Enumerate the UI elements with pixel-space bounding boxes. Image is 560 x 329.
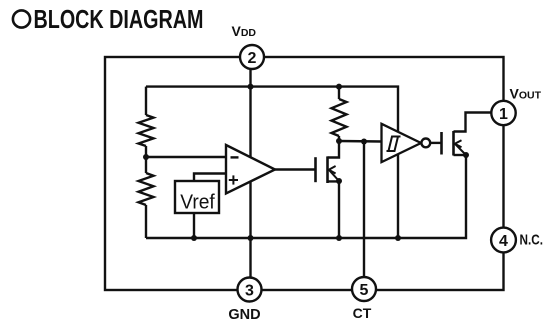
resistor R1 (divider top): [139, 115, 154, 146]
resistor R3 (timing): [332, 99, 347, 136]
pin 3 (GND): [238, 278, 262, 302]
wire: left divider upper lead: [145, 87, 147, 115]
wire: Vref output to comparator non-inverting input: [194, 174, 226, 182]
wire: internal bottom rail: [146, 155, 466, 238]
pin 5 (CT): [352, 277, 376, 301]
wire: R2 to bottom rail: [145, 205, 147, 238]
wire: R3 upper lead from top rail: [338, 87, 340, 99]
comparator U1: [226, 145, 275, 193]
wire: schmitt output to Q2 gate: [430, 142, 441, 144]
wire: divider tap to comparator inverting input: [146, 156, 226, 158]
wire: comparator output to Q1 gate: [275, 168, 316, 170]
wire: CT node to schmitt input: [339, 140, 382, 143]
IC outer boundary box: [105, 57, 504, 290]
minus input symbol: [231, 156, 239, 158]
svg-text:CT: CT: [353, 305, 372, 321]
junction: divider tap: [143, 154, 149, 160]
pin 2 (VDD): [240, 45, 264, 69]
wire: Vref ground lead: [193, 213, 195, 238]
svg-text:4: 4: [499, 233, 508, 250]
pin 1 (VOUT): [491, 101, 515, 125]
resistor R2 (divider bottom): [139, 173, 154, 205]
wire: Q1 drain to CT node: [328, 141, 340, 158]
wire: divider midpoint: [145, 146, 147, 173]
inverter bubble: [421, 139, 430, 148]
svg-text:GND: GND: [228, 307, 260, 323]
svg-text:5: 5: [360, 282, 369, 299]
wire: R3 lower lead to CT node: [338, 136, 340, 141]
junction: Q1 source node: [336, 178, 342, 184]
junction: CT node / R3: [336, 138, 342, 144]
transistor Q1 (discharge MOSFET): [316, 156, 340, 183]
junction: bottom rail / top-rail drop: [395, 235, 401, 241]
svg-text:BLOCK DIAGRAM: BLOCK DIAGRAM: [34, 4, 204, 34]
hysteresis symbol: [387, 137, 399, 152]
junction: bottom rail / Q1 source: [336, 235, 342, 241]
wire: CT node down to pin5: [363, 142, 365, 278]
svg-text:3: 3: [245, 282, 254, 299]
schmitt trigger inverter U2: [382, 124, 431, 162]
wire: Q2 source stub: [454, 154, 467, 156]
junction: bottom rail / Vref: [191, 235, 197, 241]
svg-text:Vref: Vref: [180, 191, 215, 214]
title: BLOCK DIAGRAM: [13, 4, 204, 34]
wire: internal top rail: [146, 87, 398, 238]
wire: Q2 drain to VOUT pin1: [454, 113, 493, 132]
junction: CT node / pin5 line: [361, 139, 367, 145]
plus input symbol: [229, 179, 238, 181]
junction: top rail / R3: [336, 84, 342, 90]
junction: top rail / pin2: [248, 84, 254, 90]
junction: bottom rail / pin3 line: [248, 235, 254, 241]
pin 4 (N.C.): [491, 228, 516, 253]
wire: Q1 source to bottom rail: [328, 181, 340, 238]
svg-text:N.C.: N.C.: [520, 232, 544, 249]
wire: VDD pin2 down through comparator to GND rail and pin3: [249, 69, 251, 278]
svg-text:2: 2: [248, 50, 257, 67]
junction: Q2 source node: [463, 152, 469, 158]
transistor Q2 (output MOSFET): [442, 131, 467, 156]
svg-text:1: 1: [499, 106, 508, 123]
Vref block: [175, 181, 219, 214]
